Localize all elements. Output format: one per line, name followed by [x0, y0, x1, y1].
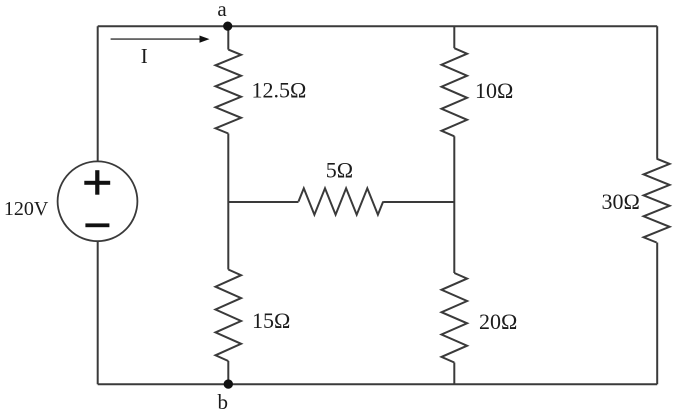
svg-text:a: a [217, 0, 227, 21]
svg-text:20Ω: 20Ω [479, 309, 517, 334]
svg-text:5Ω: 5Ω [326, 158, 353, 183]
svg-text:12.5Ω: 12.5Ω [252, 77, 307, 102]
svg-text:120V: 120V [4, 198, 49, 220]
svg-text:10Ω: 10Ω [475, 78, 513, 103]
svg-text:I: I [141, 44, 148, 68]
svg-text:30Ω: 30Ω [602, 189, 640, 214]
svg-text:b: b [218, 390, 229, 414]
svg-text:15Ω: 15Ω [252, 308, 290, 333]
